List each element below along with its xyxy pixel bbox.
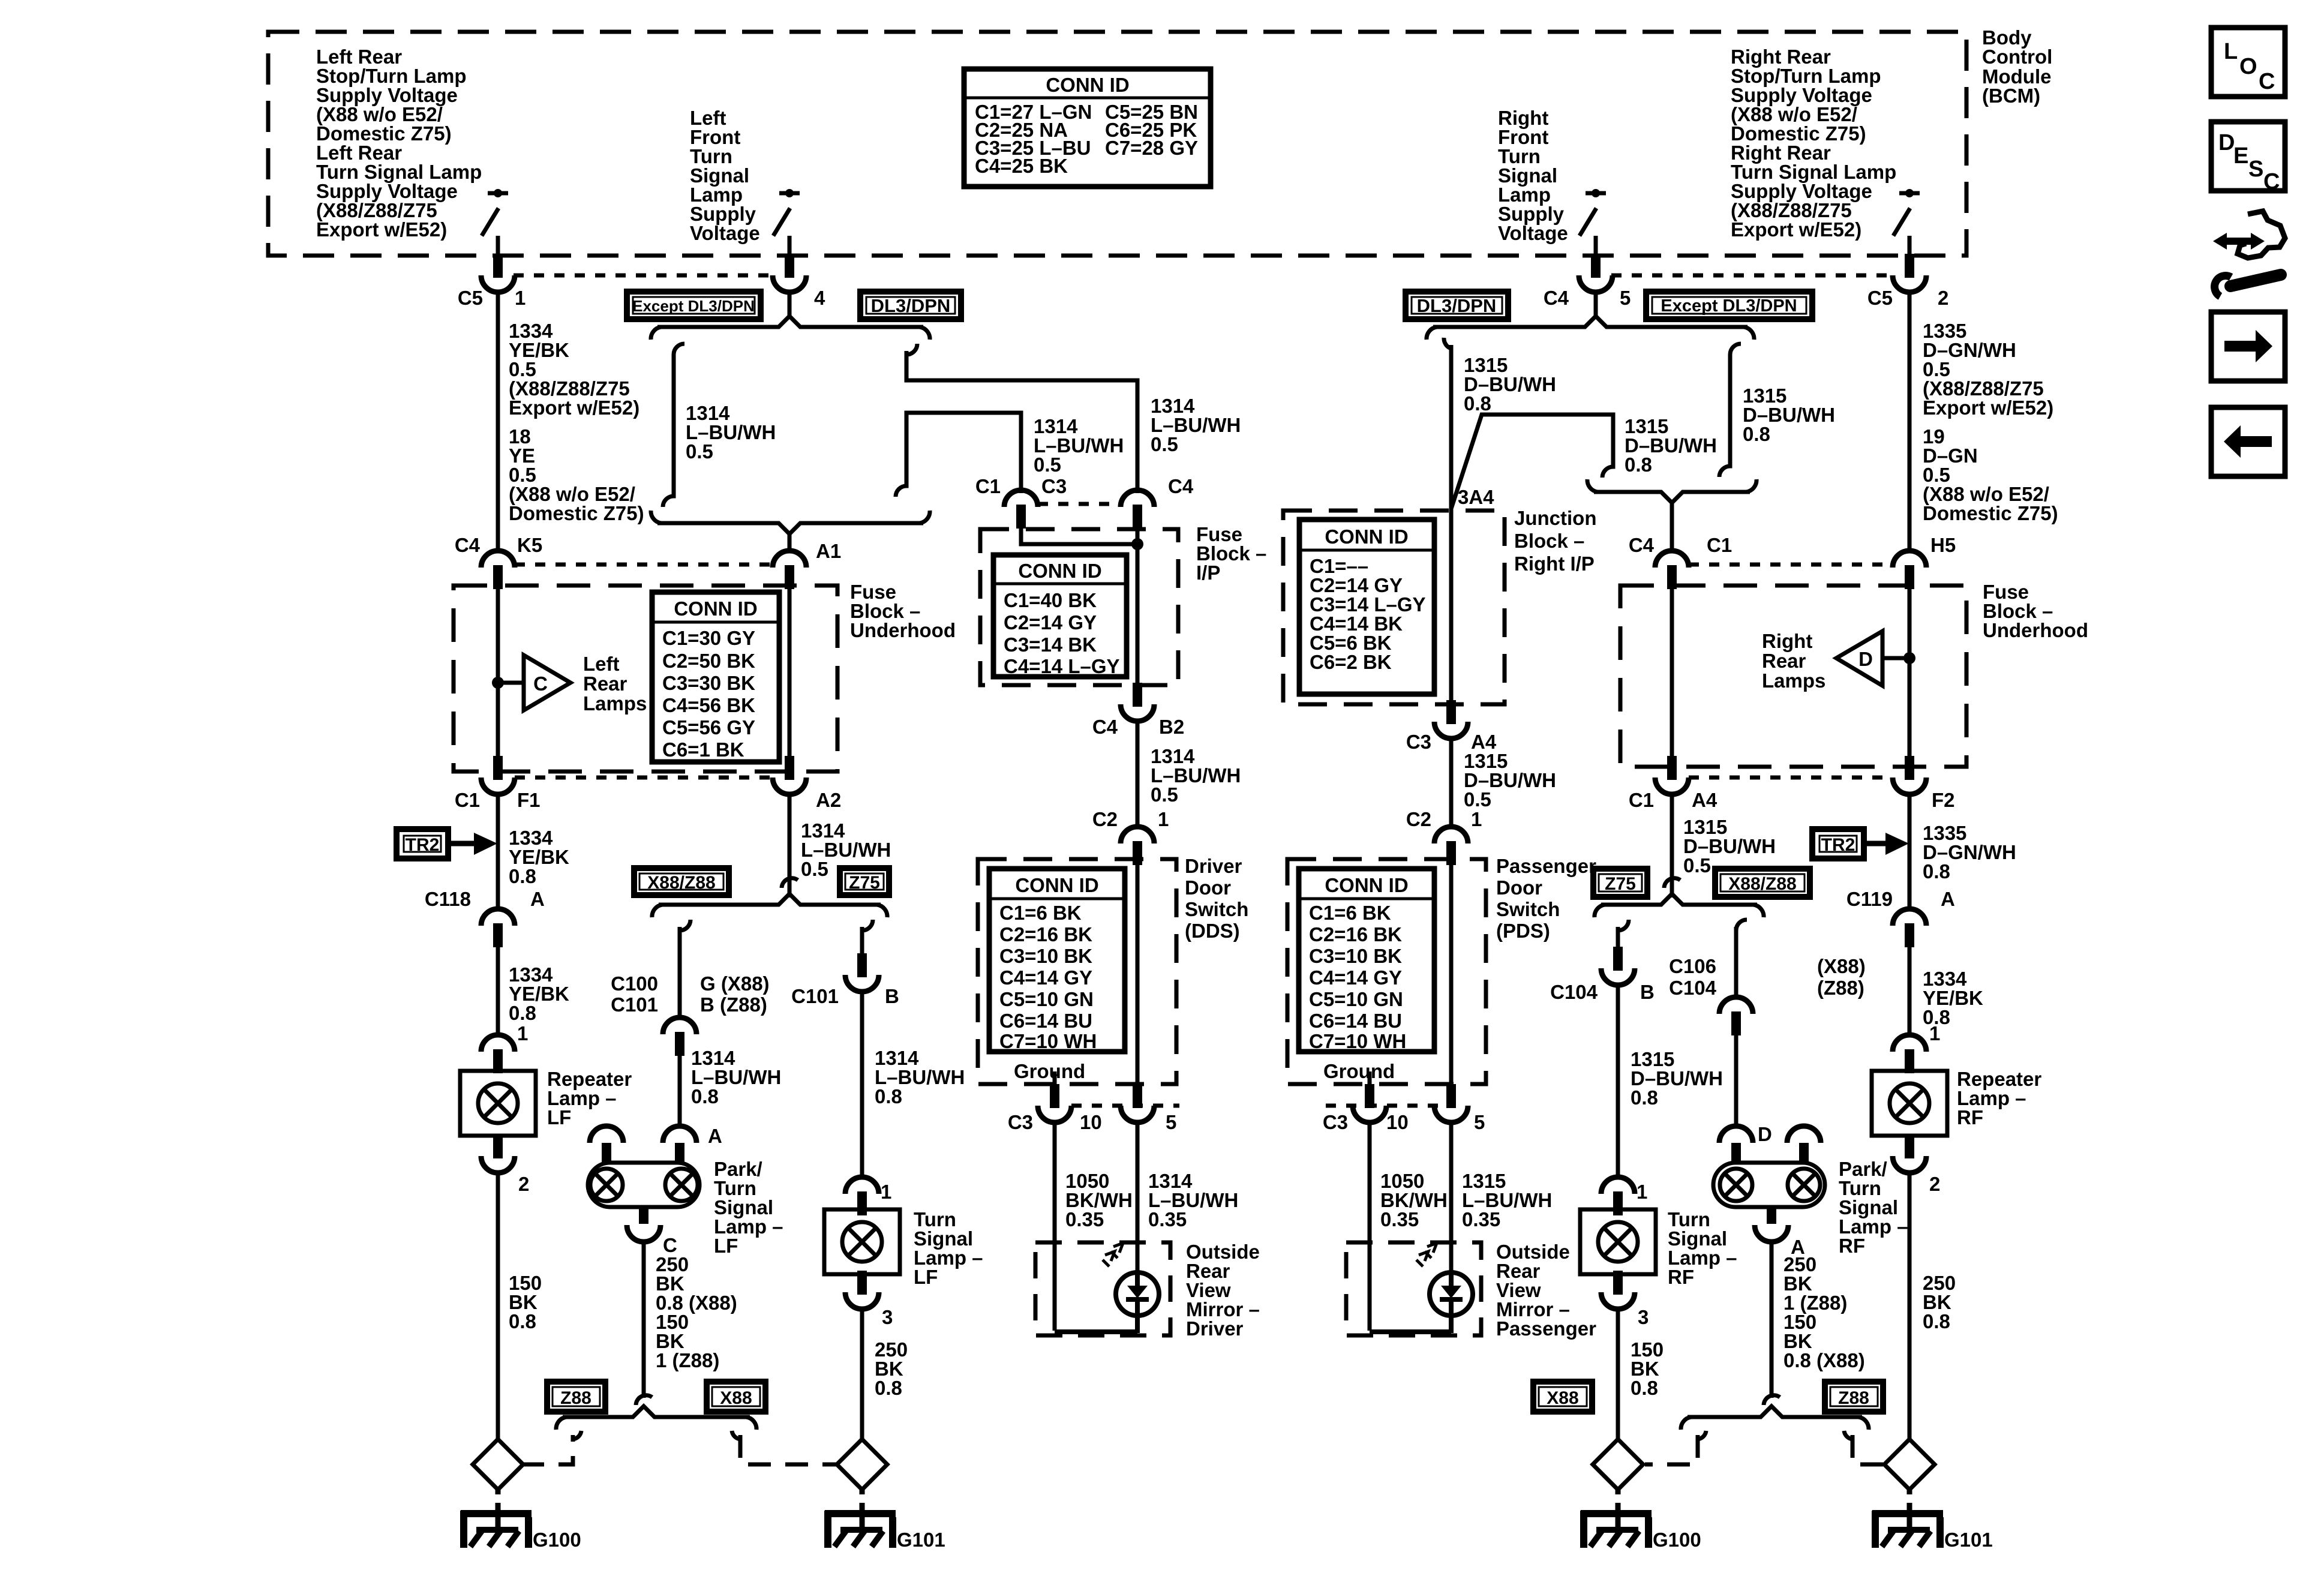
svg-text:C: C [533, 673, 548, 695]
svg-text:Z75: Z75 [1605, 874, 1636, 894]
svg-text:Domestic Z75): Domestic Z75) [1923, 502, 2058, 524]
svg-text:D: D [2218, 130, 2235, 155]
wire from pin 4 to option brace [788, 293, 792, 317]
svg-text:C7=10 WH: C7=10 WH [1309, 1030, 1406, 1052]
svg-text:0.5: 0.5 [801, 858, 828, 880]
svg-text:0.8: 0.8 [509, 1310, 536, 1332]
option wire 1314 L-BU/WH (Except DL3/DPN) bracket [663, 344, 684, 507]
label Fuse Block - Underhood [850, 581, 956, 641]
svg-text:C1: C1 [1707, 534, 1732, 556]
icon hand with double arrow and wrench [2213, 211, 2285, 296]
dashed wire from splice to Z88 branch [521, 1435, 573, 1464]
connector dome terminal D RF [1719, 1126, 1753, 1143]
svg-text:2: 2 [518, 1173, 529, 1195]
svg-text:C106: C106 [1669, 955, 1716, 977]
svg-text:C1=6 BK: C1=6 BK [1309, 902, 1391, 924]
connector pin 2 below repeater lamp RF [1893, 1134, 1926, 1173]
svg-text:B2: B2 [1159, 716, 1184, 738]
svg-text:X88: X88 [1547, 1388, 1578, 1408]
wire 250 BK to splice right [1908, 1172, 1912, 1440]
Outside Rear View Mirror Passenger dashed box [1346, 1242, 1481, 1335]
ground lead wire inside DDS [1053, 1071, 1057, 1084]
wire 1335 D-GN/WH from F2 to C119 [1908, 794, 1912, 909]
svg-text:TR2: TR2 [1821, 835, 1855, 855]
connector dome terminal A LF [663, 1126, 696, 1143]
option box Z88 bottom left [547, 1382, 605, 1412]
svg-text:Z88: Z88 [1838, 1388, 1869, 1408]
svg-text:A1: A1 [816, 540, 841, 562]
svg-text:CONN ID: CONN ID [674, 598, 757, 620]
connector C3 pin 10 (PDS) [1353, 1084, 1386, 1122]
svg-text:0.8: 0.8 [1464, 392, 1491, 415]
svg-text:C3: C3 [1323, 1111, 1348, 1133]
wire through left fuse block A1-A2 [788, 586, 792, 772]
wire 250/150 BK park/turn RF [1770, 1241, 1774, 1398]
wire 1050 BK/WH to mirror passenger [1368, 1122, 1372, 1331]
connector row C1-C3 / C4 dotted line at fuse block IP [1038, 502, 1121, 506]
svg-text:Door: Door [1185, 876, 1231, 899]
park/turn lamp RF stadium body [1713, 1163, 1825, 1207]
junction node to right rear lamps [1903, 652, 1915, 664]
svg-text:A: A [708, 1125, 722, 1147]
svg-text:C4=14 GY: C4=14 GY [1309, 966, 1402, 989]
split brace below A2 wire [659, 894, 881, 905]
splice diamond repeater RF [1884, 1439, 1935, 1490]
svg-text:0.5: 0.5 [1151, 784, 1178, 806]
park/turn signal lamp RF assembly [1713, 1126, 1908, 1405]
svg-text:Door: Door [1496, 876, 1542, 899]
connector row dotted line right [1611, 274, 1894, 278]
wire through right fuse block (C1-A4) [1670, 586, 1674, 767]
svg-text:CONN ID: CONN ID [1325, 526, 1408, 548]
svg-text:E: E [2233, 143, 2248, 169]
svg-text:Switch: Switch [1185, 898, 1248, 920]
connector C1 pin A4 [1655, 756, 1689, 794]
wire 1334 YE/BK from C5-1 to K5 [496, 293, 500, 553]
connector row C1-A4 / F2 dotted line [1689, 776, 1893, 780]
svg-text:C7=10 WH: C7=10 WH [999, 1030, 1097, 1052]
branch wire Z75 to C101 [862, 920, 873, 954]
svg-text:C4: C4 [1092, 716, 1118, 738]
connector pin 3 below turn signal lamp RF [1601, 1271, 1635, 1309]
svg-text:X88/Z88: X88/Z88 [1728, 874, 1796, 894]
svg-text:RF: RF [1839, 1235, 1865, 1257]
wire 1334 YE/BK from C118 to repeater lamp [496, 945, 500, 1036]
ground G101 left [860, 1490, 865, 1494]
svg-text:Voltage: Voltage [690, 222, 760, 244]
svg-text:C5=10 GN: C5=10 GN [1309, 988, 1403, 1010]
svg-text:5: 5 [1620, 287, 1631, 309]
svg-text:Export w/E52): Export w/E52) [1923, 397, 2053, 419]
connector row below DDS dotted [1071, 1104, 1179, 1108]
branch wire X88/Z88 to C100/C101 [680, 920, 690, 1019]
connector row C4-C1 / H5 dotted line [1689, 563, 1893, 567]
label 1334 YE/BK 0.8 above C118 [509, 827, 569, 887]
connector C5 pin 1 [481, 254, 515, 292]
wire through left fuse block (left rear lamps feed) [496, 586, 500, 772]
svg-text:Driver: Driver [1186, 1317, 1244, 1340]
svg-text:K5: K5 [517, 534, 542, 556]
branch wire Z75 to C104 [1618, 920, 1629, 948]
connector dome spare terminal RF [1787, 1126, 1821, 1143]
svg-text:Left: Left [583, 653, 620, 675]
Driver Door Switch dashed box [978, 859, 1176, 1084]
svg-text:0.8: 0.8 [875, 1377, 902, 1399]
split brace below pin C4-5 [1433, 316, 1747, 327]
Body Control Module (BCM) dashed box [268, 32, 1966, 256]
svg-text:B (Z88): B (Z88) [700, 993, 767, 1016]
label 18 YE 0.5 (X88 w/o E52/ Domestic Z75) [509, 425, 644, 524]
ground G100 right [1616, 1490, 1621, 1494]
label Body Control Module (BCM) [1982, 26, 2052, 107]
connector pin 4 [773, 254, 806, 292]
svg-text:0.8: 0.8 [1923, 860, 1950, 882]
svg-text:C1=6 BK: C1=6 BK [999, 902, 1082, 924]
connector pin A2 [773, 756, 806, 794]
connector pin A1 [773, 551, 806, 589]
svg-text:1: 1 [515, 287, 526, 309]
svg-text:C4: C4 [1168, 475, 1194, 497]
split brace below pin 4 [657, 316, 923, 327]
connector pin C below park/turn LF [639, 1207, 648, 1224]
wire 1315 D-BU/WH to C2 [1449, 739, 1454, 827]
svg-text:D: D [1858, 648, 1873, 670]
svg-text:C7=28 GY: C7=28 GY [1105, 137, 1198, 159]
svg-text:X88/Z88: X88/Z88 [647, 873, 715, 893]
svg-text:F2: F2 [1932, 789, 1955, 811]
LED lamp passenger mirror [1370, 1243, 1473, 1333]
connector pin A below park/turn RF [1767, 1207, 1776, 1224]
connector C118 pin A [481, 909, 515, 947]
svg-text:3A4: 3A4 [1458, 486, 1494, 508]
option box DL3/DPN left [860, 292, 961, 319]
wire from pin C4-5 to option brace [1594, 293, 1598, 317]
svg-text:1: 1 [1637, 1181, 1647, 1203]
svg-text:0.5: 0.5 [1034, 454, 1061, 476]
park/turn lamp LF stadium body [588, 1163, 699, 1207]
svg-text:Ground: Ground [1014, 1060, 1085, 1082]
Fuse Block Underhood left dashed box [454, 586, 837, 772]
svg-text:C3=10 BK: C3=10 BK [999, 945, 1092, 967]
svg-text:CONN ID: CONN ID [1325, 874, 1408, 896]
svg-text:1: 1 [517, 1022, 528, 1044]
svg-text:C3=30 BK: C3=30 BK [662, 672, 755, 694]
svg-text:A2: A2 [816, 789, 841, 811]
wire 1314 L-BU/WH from A2 to split [788, 794, 792, 881]
connector pin 2 below repeater lamp LF [481, 1134, 515, 1173]
connector pin 5 (DDS) [1121, 1084, 1154, 1122]
svg-text:1: 1 [881, 1181, 891, 1203]
svg-text:L: L [2224, 39, 2238, 64]
icon LOC box [2211, 28, 2285, 97]
connector pin 1 at repeater lamp RF [1893, 1035, 1926, 1073]
svg-text:0.8: 0.8 [1631, 1086, 1658, 1109]
svg-text:C104: C104 [1550, 981, 1598, 1003]
svg-text:1: 1 [1158, 808, 1169, 830]
svg-text:2: 2 [1929, 1173, 1940, 1195]
Outside Rear View Mirror Driver dashed box [1035, 1242, 1170, 1335]
svg-text:C5=10 GN: C5=10 GN [999, 988, 1094, 1010]
wire 1335 D-GN/WH from C5-2 to H5 [1908, 293, 1912, 553]
wire through junction block [1449, 511, 1454, 704]
connector C4 pin C1 [1655, 551, 1689, 589]
svg-text:S: S [2248, 157, 2263, 182]
svg-text:0.5: 0.5 [1464, 788, 1491, 810]
svg-text:C1: C1 [1629, 789, 1654, 811]
option box X88 bottom right [1533, 1382, 1592, 1412]
connector pin 3 below turn signal lamp LF [845, 1271, 879, 1309]
dashed wire from X88 branch to splice RF [1645, 1435, 1698, 1464]
svg-text:Junction: Junction [1514, 507, 1597, 529]
wire merge to A1 [788, 533, 792, 553]
svg-text:G (X88): G (X88) [700, 972, 770, 995]
svg-text:Ground: Ground [1323, 1060, 1395, 1082]
svg-text:Underhood: Underhood [850, 619, 956, 641]
svg-text:0.8: 0.8 [1923, 1310, 1950, 1332]
svg-text:C2: C2 [1092, 808, 1118, 830]
label 1334 YE/BK 0.5 (X88/Z88/Z75 Export w/E52) [509, 320, 639, 419]
svg-text:Export w/E52): Export w/E52) [509, 397, 639, 419]
svg-text:CONN ID: CONN ID [1018, 560, 1101, 582]
svg-text:C100: C100 [611, 972, 658, 995]
svg-text:4: 4 [814, 287, 825, 309]
svg-text:CONN ID: CONN ID [1046, 74, 1129, 96]
Fuse Block IP dashed box [980, 529, 1178, 685]
wire 150 BK to splice [496, 1172, 500, 1440]
svg-text:B: B [1640, 981, 1655, 1003]
option wire DL3/DPN to fuse block IP C4 [906, 344, 1137, 493]
branch wire X88/Z88 to C106/C104 [1736, 920, 1747, 998]
park/turn signal lamp LF assembly [588, 1126, 783, 1405]
svg-text:G100: G100 [533, 1529, 581, 1551]
connector row K5/A1 dotted line [515, 563, 773, 567]
svg-text:C3: C3 [1406, 731, 1431, 753]
wire 1050 BK/WH to mirror driver [1053, 1122, 1057, 1331]
svg-text:O: O [2239, 54, 2257, 79]
svg-text:G101: G101 [1944, 1529, 1993, 1551]
connector pin 1 at turn signal lamp LF [845, 1177, 879, 1215]
label 1334 YE/BK 0.8 below C118 [509, 963, 569, 1024]
wire 1314 L-BU/WH B2 to C2 [1136, 721, 1140, 827]
connector pin H5 [1893, 551, 1926, 589]
svg-text:CONN ID: CONN ID [1015, 874, 1098, 896]
connector C3 pin 10 (DDS) [1038, 1084, 1071, 1122]
connector C1/C3 at fuse block IP [1004, 490, 1038, 529]
svg-text:C3: C3 [1041, 475, 1067, 497]
CONN ID table (PDS) [1299, 869, 1434, 1052]
connector row below PDS dotted [1326, 1104, 1440, 1108]
svg-text:C4: C4 [1629, 534, 1655, 556]
CONN ID table (fuse block underhood left) [652, 592, 779, 762]
option box Except DL3/DPN left [627, 292, 761, 319]
svg-text:C4=14 GY: C4=14 GY [999, 966, 1092, 989]
svg-text:Right: Right [1762, 630, 1812, 652]
label 150 BK 0.8 [509, 1272, 542, 1332]
connector pin 1 at turn signal lamp RF [1601, 1177, 1635, 1215]
svg-text:G101: G101 [897, 1529, 945, 1551]
svg-text:LF: LF [914, 1266, 938, 1288]
BCM switch output right rear [1893, 189, 1920, 256]
svg-text:DL3/DPN: DL3/DPN [871, 295, 951, 316]
svg-text:(X88): (X88) [1817, 955, 1866, 977]
svg-text:10: 10 [1080, 1111, 1102, 1133]
connector C4 pin 5 [1579, 254, 1613, 292]
svg-text:C119: C119 [1846, 888, 1893, 910]
svg-text:Right I/P: Right I/P [1514, 553, 1595, 575]
BCM switch output right front [1580, 189, 1606, 256]
BCM switch output left front [773, 189, 800, 256]
wire 1314 L-BU/WH to turn signal lamp LF [860, 992, 864, 1179]
wire 1315 L-BU/WH to mirror LED passenger [1449, 1122, 1454, 1274]
svg-text:C5: C5 [1867, 287, 1893, 309]
merge brace above C4/C1 [1594, 492, 1750, 503]
jumper wire C3 to C4 inside fuse block IP [1021, 526, 1137, 544]
svg-text:A: A [530, 888, 545, 910]
svg-text:C: C [2263, 169, 2280, 194]
ground lead wire inside PDS [1368, 1071, 1372, 1084]
wire C4 down through fuse block IP [1136, 526, 1140, 690]
connector pin F2 [1893, 756, 1926, 794]
option box X88 bottom left [707, 1382, 765, 1412]
option box X88/Z88 right [1715, 869, 1810, 897]
label 19 D-GN 0.5 (X88 w/o E52/ Domestic Z75) [1923, 425, 2058, 524]
connector C101 pin B [845, 953, 879, 992]
svg-text:Control: Control [1982, 46, 2052, 68]
connector C106/C104 [1719, 997, 1753, 1035]
label 1314 L-BU/WH 0.5 below A2 [801, 819, 891, 880]
svg-text:Driver: Driver [1185, 855, 1242, 877]
svg-text:C104: C104 [1669, 977, 1717, 999]
svg-text:C6=14 BU: C6=14 BU [999, 1010, 1092, 1032]
svg-text:Rear: Rear [1762, 650, 1806, 672]
connector C4 at fuse block IP [1121, 490, 1154, 529]
svg-text:C4=14 L–GY: C4=14 L–GY [1004, 655, 1120, 677]
wire merge to C4/C1 [1670, 502, 1674, 553]
svg-text:C6=14 BU: C6=14 BU [1309, 1010, 1402, 1032]
icon left arrow box [2211, 407, 2285, 476]
svg-text:C118: C118 [425, 888, 471, 910]
svg-text:C101: C101 [611, 993, 658, 1016]
repeater lamp LF [460, 1071, 536, 1136]
svg-text:0.5: 0.5 [686, 440, 713, 463]
svg-text:0.8: 0.8 [1631, 1377, 1658, 1399]
wire 1315 D-BU/WH to turn signal lamp RF [1616, 985, 1620, 1179]
LED lamp driver mirror [1055, 1243, 1159, 1333]
svg-text:Domestic Z75): Domestic Z75) [509, 502, 644, 524]
svg-text:Except DL3/DPN: Except DL3/DPN [632, 297, 755, 315]
svg-text:0.8: 0.8 [1743, 423, 1770, 445]
svg-text:Block –: Block – [1514, 530, 1584, 552]
svg-text:H5: H5 [1930, 534, 1956, 556]
label Left Rear Stop/Turn Lamp Supply Voltage [316, 46, 482, 241]
turn signal lamp LF [824, 1209, 900, 1274]
svg-text:3: 3 [882, 1306, 893, 1328]
svg-text:Export w/E52): Export w/E52) [316, 218, 447, 241]
svg-text:2: 2 [1938, 287, 1948, 309]
svg-text:C5: C5 [458, 287, 483, 309]
connector C104 pin B [1601, 947, 1635, 985]
label 1315 D-BU/WH 0.5 below A4 [1683, 816, 1776, 876]
svg-text:C4=56 BK: C4=56 BK [662, 694, 755, 716]
svg-text:Z88: Z88 [560, 1388, 591, 1408]
wire 1314 L-BU/WH to mirror LED [1136, 1122, 1140, 1274]
Junction Block Right IP dashed box [1283, 511, 1505, 704]
svg-text:A4: A4 [1692, 789, 1718, 811]
svg-text:0.8: 0.8 [691, 1085, 719, 1107]
connector C119 pin A [1893, 909, 1926, 947]
svg-text:Voltage: Voltage [1498, 222, 1568, 244]
svg-text:C2=14 GY: C2=14 GY [1004, 611, 1097, 634]
svg-text:1: 1 [1929, 1022, 1940, 1044]
svg-text:0.8: 0.8 [509, 865, 536, 887]
Fuse Block Underhood right dashed box [1620, 586, 1966, 767]
option wire 1315 D-BU/WH (Except DL3/DPN) bracket [1719, 344, 1741, 477]
connector C2 pin 1 at DDS [1121, 827, 1154, 865]
split brace below A4 wire [1601, 894, 1757, 905]
dashed wire from Z88 branch to splice repeater RF [1852, 1435, 1886, 1464]
svg-text:D: D [1758, 1123, 1772, 1145]
TR2 reference box with arrow right [1812, 829, 1909, 858]
turn signal lamp RF [1580, 1209, 1656, 1274]
connector C1 pin F1 [481, 756, 515, 794]
svg-text:C6=1 BK: C6=1 BK [662, 739, 744, 761]
ground G101 right [1907, 1490, 1912, 1494]
svg-text:B: B [885, 985, 899, 1007]
label Right Front Turn Signal Lamp Supply Voltage [1498, 107, 1568, 244]
svg-text:RF: RF [1668, 1266, 1694, 1288]
option box Z88 bottom right [1825, 1382, 1883, 1412]
svg-text:0.35: 0.35 [1380, 1208, 1419, 1230]
wire through PDS [1449, 859, 1454, 1084]
connector pin 1 at repeater lamp LF [481, 1035, 515, 1073]
svg-text:0.8: 0.8 [1625, 454, 1652, 476]
connector C2 pin 1 at PDS [1434, 827, 1468, 865]
svg-text:C1=40 BK: C1=40 BK [1004, 589, 1097, 611]
svg-text:Lamps: Lamps [1762, 670, 1825, 692]
svg-text:0.5: 0.5 [1151, 433, 1178, 455]
repeater lamp RF [1872, 1071, 1947, 1136]
svg-text:C2=16 BK: C2=16 BK [1309, 923, 1402, 945]
label 1335 D-GN/WH 0.5 (X88/Z88/Z75 Export w/E52) [1923, 320, 2053, 419]
svg-text:C2: C2 [1406, 808, 1431, 830]
wire from fuse block IP C3 back to merge [896, 413, 1021, 497]
option box DL3/DPN right [1406, 292, 1508, 319]
wire 250 BK to splice [860, 1308, 864, 1440]
branch wire from 3A4 to merge brace [1451, 415, 1613, 509]
svg-text:Z75: Z75 [849, 873, 880, 893]
label 1314 L-BU/WH 0.5 (C4 wire) [1151, 395, 1241, 455]
svg-text:C6=2 BK: C6=2 BK [1310, 651, 1392, 673]
svg-text:C4=25 BK: C4=25 BK [975, 155, 1068, 177]
connector C5 pin 2 [1893, 254, 1926, 292]
option box X88/Z88 left [634, 868, 729, 895]
svg-text:5: 5 [1166, 1111, 1176, 1133]
svg-text:(Z88): (Z88) [1817, 977, 1864, 999]
CONN ID table (DDS) [989, 869, 1125, 1052]
icon right arrow box [2211, 312, 2285, 381]
connector pin 5 (PDS) [1434, 1084, 1468, 1122]
svg-text:0.8: 0.8 [509, 1002, 536, 1024]
BCM switch output left rear [482, 189, 508, 256]
svg-text:0.8: 0.8 [875, 1085, 902, 1107]
svg-text:Export w/E52): Export w/E52) [1731, 218, 1861, 241]
svg-text:(BCM): (BCM) [1982, 85, 2040, 107]
svg-text:C1: C1 [975, 475, 1001, 497]
svg-text:Lamps: Lamps [583, 692, 647, 715]
splice diamond turn signal LF [837, 1439, 887, 1490]
svg-text:C3=10 BK: C3=10 BK [1309, 945, 1402, 967]
svg-text:10: 10 [1386, 1111, 1409, 1133]
